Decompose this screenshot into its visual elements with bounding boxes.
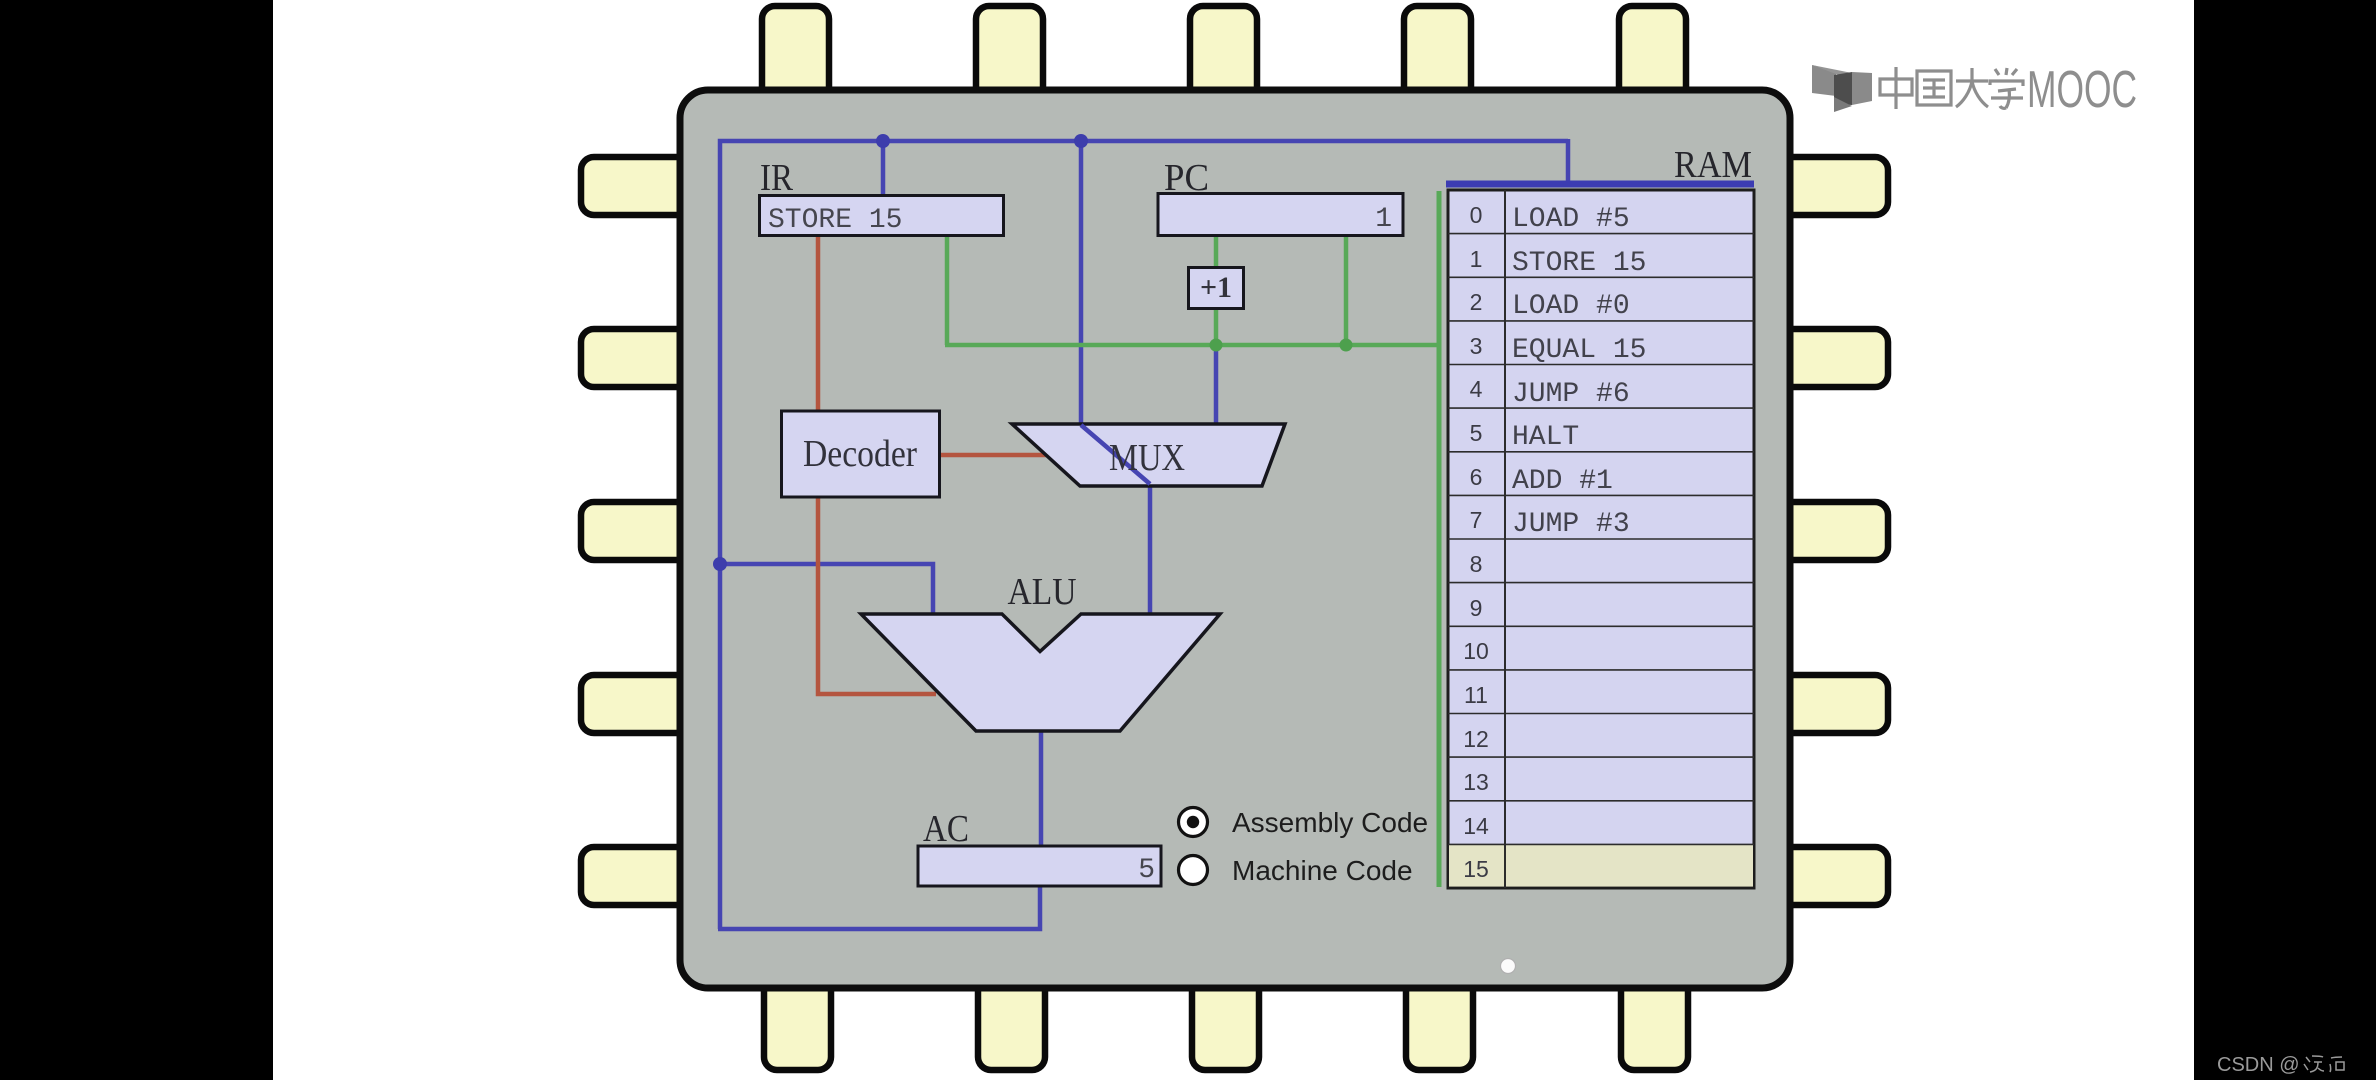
RAM row numbers <box>1463 202 1489 882</box>
pin left 1 <box>581 157 691 215</box>
svg-text:STORE 15: STORE 15 <box>1512 248 1646 279</box>
svg-text:5: 5 <box>1470 420 1483 446</box>
svg-text:Machine Code: Machine Code <box>1232 855 1413 886</box>
svg-text:11: 11 <box>1464 682 1488 708</box>
register AC box <box>918 846 1161 886</box>
pin left 5 <box>581 847 691 905</box>
svg-text:ADD #1: ADD #1 <box>1512 466 1613 497</box>
svg-text:9: 9 <box>1470 595 1483 621</box>
pin top 1 <box>762 6 829 106</box>
svg-text:0: 0 <box>1470 202 1483 228</box>
svg-text:RAM: RAM <box>1674 144 1752 186</box>
cursor dot <box>1501 959 1516 974</box>
mux body <box>1012 424 1285 486</box>
pin left 3 <box>581 502 691 560</box>
svg-text:15: 15 <box>1463 856 1489 882</box>
chip body <box>680 90 1790 988</box>
letterbox left bar <box>0 0 273 1080</box>
svg-text:PC: PC <box>1164 157 1209 199</box>
letterbox right bar <box>2194 0 2376 1080</box>
wire blue bus to MUX left input <box>1081 141 1150 615</box>
RAM table group <box>1448 190 1754 888</box>
svg-text:CSDN @: CSDN @ <box>2217 1054 2300 1076</box>
incrementer +1 box <box>1189 268 1244 309</box>
svg-text:4: 4 <box>1470 376 1483 402</box>
junction dot blue bus-MUX <box>1074 134 1088 148</box>
svg-text:5: 5 <box>1138 855 1155 886</box>
svg-text:MUX: MUX <box>1109 437 1185 479</box>
wire blue top bus <box>720 141 1568 929</box>
svg-text:IR: IR <box>760 157 794 199</box>
pin right 3 <box>1778 502 1888 560</box>
wire blue PC bus to MUX right input <box>1214 347 1219 425</box>
pin bottom 2 <box>978 975 1045 1070</box>
svg-text:10: 10 <box>1463 638 1489 664</box>
svg-text:ALU: ALU <box>1008 571 1077 613</box>
pin right 4 <box>1778 675 1888 733</box>
svg-text:HALT: HALT <box>1512 422 1579 453</box>
svg-text:+1: +1 <box>1200 271 1232 304</box>
svg-text:6: 6 <box>1470 464 1483 490</box>
MOOC logo icon <box>1812 65 1872 112</box>
pin left 4 <box>581 675 691 733</box>
svg-text:8: 8 <box>1470 551 1483 577</box>
svg-text:STORE 15: STORE 15 <box>768 205 902 236</box>
junction dot blue branch ALU <box>713 557 727 571</box>
svg-text:3: 3 <box>1470 333 1483 359</box>
svg-text:13: 13 <box>1463 769 1489 795</box>
pin right 5 <box>1778 847 1888 905</box>
svg-text:14: 14 <box>1463 813 1489 839</box>
svg-text:LOAD #0: LOAD #0 <box>1512 291 1630 322</box>
wire green PC right drop <box>1344 236 1349 345</box>
pin bottom 1 <box>764 975 831 1070</box>
register PC box <box>1158 194 1403 236</box>
wire green address bus horizontal <box>945 343 1438 348</box>
svg-text:AC: AC <box>923 808 969 850</box>
alu body <box>861 614 1220 731</box>
pin top 5 <box>1619 6 1686 106</box>
wire red Decoder to ALU <box>818 497 936 694</box>
wire green +1 out <box>1214 308 1219 345</box>
svg-text:2: 2 <box>1470 289 1483 315</box>
pin top 3 <box>1190 6 1257 106</box>
wire green RAM address line <box>1437 191 1442 887</box>
CSDN watermark cjk <box>2304 1056 2344 1072</box>
wire blue bus to RAM <box>1566 139 1571 182</box>
pin right 2 <box>1778 329 1888 387</box>
pin left 2 <box>581 329 691 387</box>
RAM cell instructions <box>1512 204 1646 540</box>
wire blue diagonal through mux <box>1081 425 1150 484</box>
junction dot blue bus-IR <box>876 134 890 148</box>
pin bottom 3 <box>1192 975 1259 1070</box>
wire green PC to +1 <box>1214 236 1219 268</box>
svg-text:Assembly Code: Assembly Code <box>1232 807 1428 838</box>
pin top 2 <box>976 6 1043 106</box>
radio button Machine Code <box>1179 856 1208 885</box>
svg-text:1: 1 <box>1375 204 1392 235</box>
junction dot green +1 <box>1210 339 1223 352</box>
svg-text:7: 7 <box>1470 507 1483 533</box>
wire blue bus to IR <box>881 141 886 196</box>
svg-text:EQUAL 15: EQUAL 15 <box>1512 335 1646 366</box>
junction dot green PC <box>1340 339 1353 352</box>
MOOC logo text 中国大学 <box>1880 67 2023 109</box>
svg-text:Decoder: Decoder <box>803 433 917 475</box>
svg-text:MOOC: MOOC <box>2027 61 2137 119</box>
svg-text:1: 1 <box>1470 246 1483 272</box>
wire red IR opcode to Decoder <box>816 236 821 411</box>
pin top 4 <box>1404 6 1471 106</box>
wire green IR address out <box>945 236 950 345</box>
wire red Decoder to MUX <box>939 453 1046 458</box>
svg-text:12: 12 <box>1463 726 1489 752</box>
wire blue ALU output to AC <box>1039 730 1044 847</box>
svg-text:LOAD #5: LOAD #5 <box>1512 204 1630 235</box>
wire blue RAM data bar <box>1446 181 1754 188</box>
pin right 1 <box>1778 157 1888 215</box>
register IR box <box>760 196 1004 236</box>
wire blue bottom AC loop <box>718 886 1040 929</box>
svg-text:JUMP #3: JUMP #3 <box>1512 509 1630 540</box>
pin bottom 4 <box>1406 975 1473 1070</box>
radio button Assembly Code (selected) <box>1179 808 1208 837</box>
svg-text:JUMP #6: JUMP #6 <box>1512 379 1630 410</box>
wire blue branch to ALU left input <box>720 564 933 616</box>
pin bottom 5 <box>1621 975 1688 1070</box>
decoder box <box>782 411 940 497</box>
